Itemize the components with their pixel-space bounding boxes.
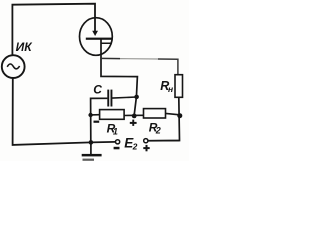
- svg-text:2: 2: [132, 142, 138, 152]
- svg-text:C: C: [93, 82, 102, 96]
- svg-text:н: н: [168, 84, 173, 94]
- svg-text:ИК: ИК: [16, 40, 34, 54]
- svg-text:2: 2: [155, 126, 161, 136]
- svg-text:1: 1: [113, 126, 118, 136]
